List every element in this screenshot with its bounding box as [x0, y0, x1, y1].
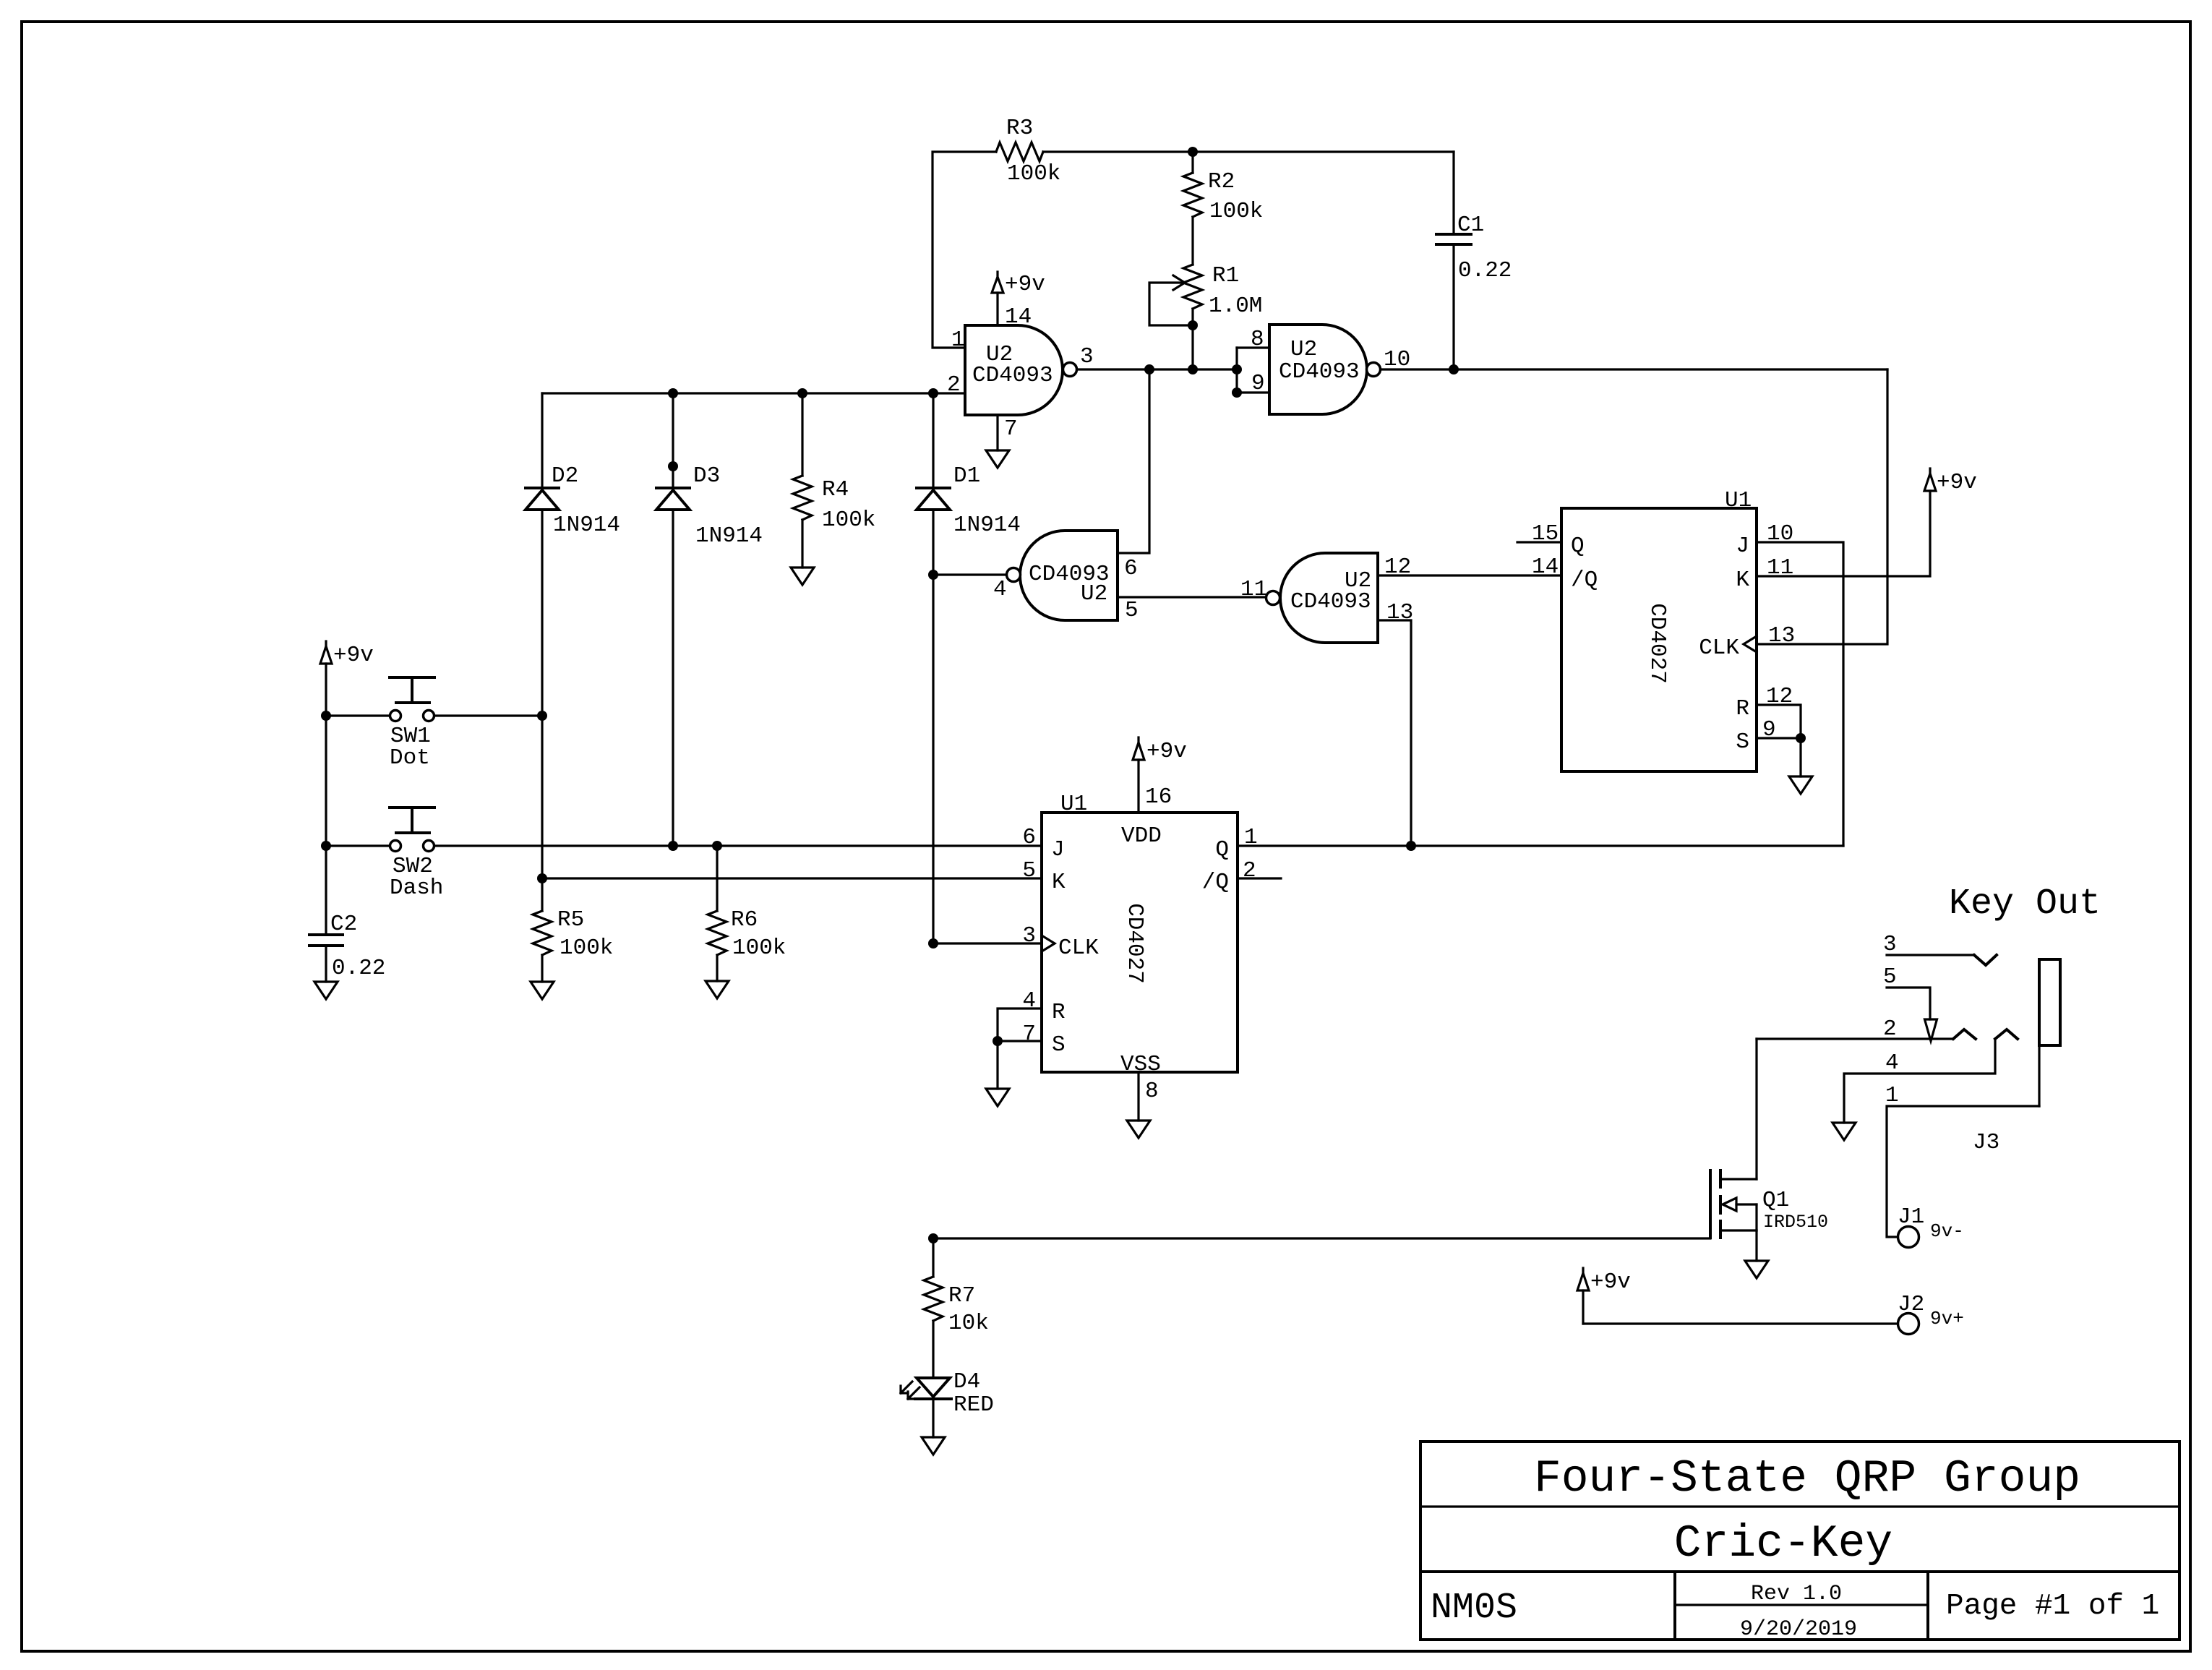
- ground U2A pin7: [986, 450, 1009, 468]
- flip-flop U1A CD4027 top box: [1532, 488, 1795, 771]
- wire CLK line to U1B pin3: [933, 942, 1042, 944]
- svg-text:U2: U2: [1081, 581, 1107, 607]
- resistor R2: [1183, 169, 1263, 224]
- resistor R4: [793, 393, 875, 568]
- svg-text:0.22: 0.22: [1458, 258, 1512, 283]
- svg-text:Cric-Key: Cric-Key: [1674, 1518, 1892, 1570]
- resistor R6: [708, 846, 786, 981]
- svg-text:2: 2: [1883, 1016, 1897, 1042]
- svg-text:U2: U2: [1290, 337, 1317, 362]
- svg-text:R3: R3: [1006, 116, 1033, 141]
- wire U2D pin13 down to Q line: [1378, 620, 1411, 846]
- wire U1A pin9 S: [1757, 737, 1801, 739]
- svg-text:4: 4: [1885, 1050, 1899, 1076]
- power +9v above SW1: [320, 641, 374, 716]
- svg-text:R4: R4: [822, 477, 849, 502]
- svg-text:CD4093: CD4093: [1290, 589, 1371, 615]
- wire K line R5 to U1B pin5: [542, 877, 1042, 879]
- junction node R3/R2/C1 top: [1188, 147, 1198, 157]
- svg-text:100k: 100k: [822, 508, 875, 533]
- svg-text:C2: C2: [330, 912, 357, 937]
- svg-text:CD4093: CD4093: [1279, 359, 1360, 385]
- svg-text:IRD510: IRD510: [1763, 1212, 1828, 1233]
- ground Q1 source: [1745, 1261, 1768, 1278]
- power +9v at J2: [1577, 1268, 1631, 1324]
- wire R1 junction down to oscillator output node: [1191, 325, 1193, 369]
- diode D1: [917, 393, 1021, 943]
- diode D2: [526, 393, 620, 716]
- jack J3 pin5 wire and plug arrow: [1883, 964, 1937, 1041]
- jack J3 pin3 wire and break contact: [1883, 932, 1997, 965]
- svg-text:CLK: CLK: [1699, 635, 1739, 661]
- svg-text:Q1: Q1: [1762, 1188, 1789, 1213]
- node SW1 to D2/R5 chain: [537, 711, 547, 721]
- svg-text:U1: U1: [1725, 488, 1752, 513]
- svg-text:U1: U1: [1060, 792, 1087, 817]
- diode D3: [656, 393, 763, 846]
- wire S node to ground: [1799, 738, 1801, 776]
- wire U1A pin10 J to vertical down to Q line: [1757, 542, 1843, 846]
- svg-text:R: R: [1052, 1000, 1066, 1025]
- jack J3 body: [1973, 959, 2060, 1155]
- node D1 to gate3 input: [928, 570, 938, 580]
- node C1 bottom on output line: [1449, 364, 1459, 374]
- node output to R1: [1188, 364, 1198, 374]
- op-amp U2D NAND gate CD4093 pins 11,12,13 mirrored: [1240, 553, 1413, 643]
- ground jack pin4: [1832, 1123, 1856, 1140]
- node Q line to U2D pin13: [1406, 841, 1416, 851]
- node pin9 tie: [1232, 387, 1242, 398]
- wire U2A pin2 input line: [542, 392, 965, 394]
- svg-text:D4: D4: [953, 1369, 980, 1395]
- svg-text:4: 4: [1022, 988, 1036, 1014]
- wire U1B pin8 VSS to ground: [1137, 1072, 1139, 1121]
- svg-text:9: 9: [1251, 371, 1265, 396]
- wire R1 bottom to junction: [1191, 309, 1193, 325]
- wire U1B pin1 Q line to right: [1238, 844, 1843, 847]
- wire U1A pin11 K to +9v: [1757, 491, 1930, 576]
- wire D1 node to U2C input pin4: [933, 573, 1006, 575]
- svg-text:CLK: CLK: [1058, 935, 1099, 961]
- node +9v to SW1: [321, 711, 331, 721]
- svg-text:+9v: +9v: [333, 643, 374, 668]
- jack J3 second contact: [1995, 1029, 2018, 1039]
- svg-text:+9v: +9v: [1937, 470, 1977, 495]
- wire SW1 node down to K line: [541, 716, 543, 878]
- svg-text:R2: R2: [1208, 169, 1235, 194]
- svg-text:3: 3: [1883, 932, 1897, 957]
- svg-text:R: R: [1736, 696, 1749, 721]
- wire U1B pin2 /Q stub: [1238, 877, 1281, 879]
- svg-text:Q: Q: [1571, 534, 1585, 559]
- svg-text:100k: 100k: [732, 935, 786, 961]
- svg-text:R7: R7: [948, 1283, 975, 1309]
- svg-text:Page #1 of 1: Page #1 of 1: [1946, 1590, 2159, 1623]
- ground R5: [531, 982, 554, 999]
- ground U1A S: [1789, 776, 1812, 794]
- svg-text:VSS: VSS: [1120, 1052, 1161, 1077]
- svg-text:J2: J2: [1898, 1292, 1924, 1317]
- wire R2 to R1: [1191, 217, 1193, 265]
- node R4 top: [797, 388, 807, 398]
- svg-text:D2: D2: [552, 463, 578, 489]
- svg-text:100k: 100k: [1007, 161, 1060, 187]
- capacitor C1: [1436, 152, 1512, 369]
- resistor R5: [533, 878, 613, 982]
- svg-text:6: 6: [1022, 825, 1036, 850]
- node D1 chain to U1B CLK: [928, 938, 938, 949]
- svg-text:/Q: /Q: [1202, 870, 1229, 895]
- node output to gate3: [1144, 364, 1154, 374]
- svg-text:NM0S: NM0S: [1431, 1588, 1517, 1629]
- svg-text:1: 1: [951, 327, 965, 353]
- svg-text:Dot: Dot: [390, 745, 430, 771]
- svg-text:5: 5: [1022, 858, 1036, 883]
- switch SW2 Dash: [326, 808, 443, 901]
- connector J1 9v-: [1898, 1204, 1964, 1248]
- svg-text:J1: J1: [1898, 1204, 1924, 1230]
- wire U1A pin15 Q stub: [1517, 541, 1561, 543]
- svg-text:14: 14: [1532, 554, 1559, 580]
- svg-text:0.22: 0.22: [332, 956, 385, 981]
- svg-text:J3: J3: [1973, 1130, 1999, 1155]
- wire oscillator output line pin3 to U2B inputs: [1077, 368, 1237, 370]
- op-amp U2A NAND gate CD4093 pins 1,2,3: [947, 304, 1094, 442]
- op-amp U2B NAND gate CD4093 pins 8,9,10: [1251, 325, 1410, 414]
- svg-text:1N914: 1N914: [953, 513, 1021, 538]
- svg-text:8: 8: [1251, 327, 1264, 352]
- wire Q1 drain up to jack pin2: [1755, 1039, 1757, 1179]
- resistor R3: [996, 116, 1454, 187]
- wire U1B pin7 S: [998, 1040, 1042, 1042]
- svg-text:+9v: +9v: [1146, 739, 1187, 764]
- wire S node to ground: [996, 1041, 998, 1089]
- wire CLK vertical down to U1A pin 13: [1757, 369, 1887, 644]
- connector J2 9v+: [1898, 1292, 1964, 1335]
- wire U1A pin12 R bracket to pin9 S: [1757, 705, 1801, 738]
- svg-text:J: J: [1051, 837, 1065, 862]
- svg-text:13: 13: [1768, 623, 1795, 648]
- wire U2C pin5 to U2D input pin11: [1118, 596, 1266, 598]
- svg-text:9v+: 9v+: [1930, 1308, 1964, 1329]
- svg-text:5: 5: [1125, 598, 1139, 623]
- svg-text:Key Out: Key Out: [1949, 883, 2101, 925]
- node D1 top: [928, 388, 938, 398]
- wire U2D pin12 to U1A pin14: [1378, 574, 1561, 576]
- svg-text:11: 11: [1240, 577, 1267, 602]
- svg-text:2: 2: [1243, 858, 1256, 883]
- wire +9v rail down to SW2: [325, 716, 327, 846]
- svg-text:Q: Q: [1215, 837, 1229, 862]
- junction node R1 bottom: [1188, 320, 1198, 330]
- ground R6: [706, 981, 729, 998]
- svg-text:J: J: [1736, 534, 1749, 559]
- node output to pins 8,9: [1232, 364, 1242, 374]
- ground C2: [314, 982, 338, 999]
- power +9v above U1B pin16: [1133, 737, 1187, 813]
- switch SW1 Dot: [326, 677, 542, 771]
- svg-text:4: 4: [993, 577, 1007, 602]
- svg-text:6: 6: [1124, 556, 1138, 581]
- title block frame: [1420, 1442, 2179, 1640]
- svg-text:+9v: +9v: [1590, 1269, 1631, 1295]
- capacitor C2: [309, 846, 385, 982]
- svg-text:S: S: [1052, 1032, 1066, 1058]
- pin 13 clock wedge U1A: [1744, 636, 1757, 652]
- jack J3 pin1 wire: [1885, 1083, 2039, 1237]
- flip-flop U1B CD4027 bottom box: [1022, 784, 1257, 1104]
- svg-text:D1: D1: [953, 463, 980, 489]
- svg-text:R6: R6: [731, 907, 758, 933]
- power +9v at U1A K: [1924, 468, 1977, 495]
- svg-text:/Q: /Q: [1571, 568, 1598, 593]
- svg-text:7: 7: [1022, 1022, 1036, 1047]
- ground D4: [922, 1437, 945, 1455]
- op-amp U2C NAND gate CD4093 pins 4,5,6 mirrored: [993, 531, 1139, 623]
- svg-text:Four-State QRP Group: Four-State QRP Group: [1534, 1453, 2080, 1504]
- svg-text:CD4093: CD4093: [972, 363, 1053, 388]
- wire R1 wiper bracket: [1149, 283, 1193, 325]
- svg-text:5: 5: [1883, 964, 1897, 990]
- node D3 top: [668, 388, 678, 398]
- node +9v to SW2: [321, 841, 331, 851]
- wire top feedback from R3 left end down to U2A pin1: [933, 152, 996, 348]
- ground U1B VSS: [1127, 1121, 1150, 1138]
- svg-text:1N914: 1N914: [553, 513, 620, 538]
- svg-text:+9v: +9v: [1005, 272, 1045, 297]
- svg-text:16: 16: [1145, 784, 1172, 810]
- trimmer R1: [1173, 263, 1262, 319]
- svg-text:K: K: [1736, 568, 1749, 593]
- wire tie pins 8 and 9 of U2B: [1237, 346, 1269, 348]
- node R/S tie: [1796, 733, 1806, 743]
- wire U2C pin6 up to oscillator output node: [1118, 369, 1149, 553]
- svg-text:9v-: 9v-: [1930, 1220, 1964, 1242]
- svg-text:Dash: Dash: [390, 875, 443, 901]
- svg-text:VDD: VDD: [1121, 823, 1162, 849]
- svg-text:3: 3: [1080, 344, 1094, 369]
- ground U1B S: [986, 1089, 1009, 1106]
- svg-text:3: 3: [1022, 923, 1036, 949]
- wire SW2 line to U1B pin6 J: [434, 844, 1042, 847]
- ground R4: [791, 568, 814, 585]
- transistor Q1 IRD510 MOSFET: [1710, 1170, 1828, 1261]
- wire U1B pin4 R bracket: [998, 1009, 1042, 1041]
- svg-text:C1: C1: [1457, 213, 1484, 238]
- power +9v above U2A pin 14: [992, 272, 1045, 325]
- svg-text:7: 7: [1004, 416, 1018, 442]
- svg-text:13: 13: [1386, 600, 1413, 625]
- svg-text:CD4027: CD4027: [1122, 903, 1147, 984]
- resistor R7: [924, 1238, 989, 1378]
- svg-text:S: S: [1736, 729, 1749, 755]
- svg-text:1: 1: [1885, 1083, 1899, 1108]
- svg-text:14: 14: [1005, 304, 1032, 330]
- wire gate line to Q1: [933, 1237, 1710, 1239]
- svg-text:D3: D3: [693, 463, 720, 489]
- wire +9v to J2: [1583, 1322, 1898, 1324]
- wire R2 top lead: [1191, 152, 1193, 173]
- svg-text:RED: RED: [953, 1392, 994, 1418]
- svg-text:100k: 100k: [1209, 199, 1263, 224]
- svg-text:Rev 1.0: Rev 1.0: [1751, 1582, 1842, 1606]
- LED D4 RED: [901, 1369, 994, 1437]
- svg-text:9/20/2019: 9/20/2019: [1740, 1617, 1857, 1642]
- svg-text:8: 8: [1145, 1079, 1159, 1104]
- svg-text:R5: R5: [557, 907, 584, 933]
- svg-text:1N914: 1N914: [695, 523, 763, 549]
- svg-text:K: K: [1052, 870, 1066, 895]
- node R5 top on K line: [537, 873, 547, 883]
- jack J3 pin4 wire to ground: [1844, 1039, 1995, 1123]
- svg-text:1.0M: 1.0M: [1209, 294, 1262, 319]
- jack J3 pin2 wire and tip contact: [1757, 1016, 1976, 1042]
- node gate drive on D1 chain: [928, 1233, 938, 1243]
- wire U2B output pin10 to CLK vertical: [1381, 368, 1887, 370]
- svg-text:100k: 100k: [560, 935, 613, 961]
- node D3 bottom on J line: [668, 841, 678, 851]
- node U1B R/S tie: [993, 1036, 1003, 1046]
- pin 3 clock wedge U1B: [1042, 935, 1055, 951]
- svg-text:R1: R1: [1212, 263, 1239, 288]
- wire U2A pin7 to ground: [996, 415, 998, 450]
- svg-text:10k: 10k: [948, 1311, 989, 1336]
- svg-text:CD4027: CD4027: [1645, 603, 1670, 684]
- node R6 top on J line: [712, 841, 722, 851]
